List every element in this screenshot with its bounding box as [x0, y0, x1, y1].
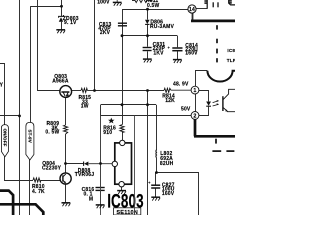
junction L802 output node	[155, 171, 158, 174]
wire: C814 drop	[177, 36, 179, 48]
wire: D808 to IC803 pin	[89, 163, 112, 165]
junction C813/D806 node left	[121, 34, 124, 37]
svg-text:ST-9V: ST-9V	[27, 130, 32, 143]
wire: IC803 bottom pin to ground	[121, 187, 123, 190]
connector circle 1	[191, 86, 199, 94]
svg-text:1KV: 1KV	[153, 51, 164, 57]
resistor R814	[164, 88, 171, 92]
wire: zener top	[61, 0, 63, 16]
svg-text:R811: R811	[146, 0, 158, 4]
label pill ST-9V	[26, 122, 34, 160]
wire: circle1 up and right to arc	[196, 71, 208, 87]
wire: D808 horizontal	[66, 163, 84, 165]
svg-text:2: 2	[193, 113, 196, 119]
ground: C831	[143, 59, 152, 62]
ground: IC803	[117, 191, 126, 194]
wire: ON/OFF to R810	[5, 157, 34, 181]
svg-text:1W: 1W	[81, 103, 89, 109]
svg-text:160V: 160V	[162, 191, 175, 197]
wire: C831 to ground	[147, 51, 149, 59]
ground: zener	[56, 30, 65, 33]
wire: node y=35.7 horizontal	[122, 35, 177, 37]
wire: R809 to node	[65, 134, 67, 164]
wire: LED loop	[199, 91, 209, 102]
svg-text:48. 9V: 48. 9V	[173, 81, 189, 87]
svg-text:0. 5W: 0. 5W	[45, 129, 59, 135]
svg-text:TLP: TLP	[227, 58, 235, 63]
thick power wires	[0, 21, 235, 215]
junction C816 node	[99, 162, 102, 165]
wire: horizontal y=6.3 to zener node	[30, 6, 61, 8]
wire: branch y=104.7	[101, 104, 156, 106]
junction left bus tap	[18, 115, 21, 118]
wire: thick left wire 1	[0, 191, 13, 215]
wire: 50V long horizontal / box top	[101, 115, 191, 117]
wire: long horizontal y=90.5	[94, 90, 164, 92]
wire: C816 to ground	[100, 191, 102, 205]
junction C813/D806 node right	[146, 34, 149, 37]
svg-text:Y: Y	[0, 82, 4, 88]
svg-text:2KV: 2KV	[100, 30, 111, 36]
star mark	[108, 118, 114, 124]
wire: thick bus top right	[191, 20, 235, 23]
svg-text:C2230Y: C2230Y	[42, 166, 62, 172]
ground: C814	[173, 60, 182, 63]
svg-text:82UH: 82UH	[160, 161, 174, 167]
wire: top horizontal y=9.2	[123, 10, 189, 36]
wire: node to Q804	[65, 164, 67, 173]
wire: C827 to ground	[155, 188, 157, 197]
IC803 regulator body	[112, 140, 131, 187]
inductor L802	[155, 150, 158, 158]
capacitor C816	[96, 188, 105, 191]
wire: Q804 emitter to ground	[65, 184, 67, 203]
wire: Q803 collector down to R809	[65, 97, 67, 125]
wire: ON/OFF label entry	[0, 64, 5, 126]
svg-text:IC8: IC8	[227, 48, 235, 53]
svg-text:160V: 160V	[185, 51, 198, 57]
svg-text:14: 14	[189, 7, 195, 13]
svg-text:ON/OFF: ON/OFF	[2, 129, 7, 147]
SE110N boxed label	[114, 208, 141, 216]
transformer core dashed vertical	[212, 25, 234, 151]
svg-text:A966A: A966A	[52, 78, 69, 84]
transformer secondary arc (thick)	[207, 71, 235, 82]
wire: between circle1 and circle2	[195, 94, 197, 111]
svg-text:9. 1V: 9. 1V	[64, 20, 77, 26]
winding right loops	[229, 0, 235, 5]
junction Q804 collector node	[64, 162, 67, 165]
svg-text:IC803: IC803	[107, 190, 144, 212]
capacitor C814 (electrolytic)	[172, 48, 182, 51]
core bars top	[212, 2, 214, 7]
wire: zener bottom	[61, 22, 63, 30]
ground: 100V top	[113, 0, 122, 6]
wire: output to right edge	[156, 173, 199, 216]
wire: R816 to IC803 top pin	[122, 133, 124, 141]
resistor R818 (cut at top)	[132, 0, 152, 3]
optocoupler LED	[206, 102, 211, 107]
transistor Q804	[60, 173, 71, 184]
svg-text:TVR06J: TVR06J	[75, 172, 94, 178]
winding left loops	[206, 0, 208, 9]
wire: circle14 lead down	[192, 13, 194, 21]
wire: R810 right to Q804 base	[41, 180, 60, 182]
wire: thick left wire 2	[0, 204, 43, 215]
connector circle 14	[188, 5, 196, 13]
resistor R809 (vertical)	[64, 125, 68, 134]
core dashes bottom right	[215, 139, 217, 144]
wire: C827 drop	[155, 172, 157, 185]
wire: x=100.7 down to C816	[100, 105, 102, 188]
svg-text:100V: 100V	[97, 0, 110, 6]
resistor R815	[81, 88, 87, 92]
junction at ZD803 top	[60, 5, 63, 8]
wire: x=122 C813 section handled above; down segment	[122, 36, 124, 125]
svg-text:1: 1	[193, 88, 196, 94]
junction branch corner	[146, 103, 149, 106]
wire: C814 to ground	[177, 51, 179, 59]
svg-text:50V: 50V	[181, 106, 191, 112]
wire: Q803 right to R815	[72, 90, 81, 92]
resistor R810	[33, 178, 41, 182]
junction R816 top	[121, 103, 124, 106]
wire: thick bus bottom right	[194, 135, 235, 138]
zener ZD803	[59, 15, 64, 22]
wire: L802 below coil	[156, 158, 158, 172]
junction at D806 top	[146, 8, 149, 11]
wire: branch x=147.3 down to bottom	[147, 91, 149, 216]
ground: C827	[151, 197, 160, 200]
wire: x=37.3 vertical + Q803 base	[38, 0, 61, 91]
optocoupler arrows	[213, 100, 219, 106]
wire: circle14 to winding	[196, 8, 207, 10]
svg-text:RU-3AMV: RU-3AMV	[150, 24, 175, 30]
wire: D806 bottom to node	[147, 25, 149, 36]
transistor Q803	[60, 86, 72, 98]
wire: thick below circle2	[194, 119, 197, 136]
wire: left branch y=115.9	[0, 115, 19, 117]
wire: R814 to circle 1	[171, 89, 191, 91]
optocoupler phototransistor	[223, 89, 235, 111]
wire: L802 chain from jog	[156, 105, 158, 151]
resistor R816 (vertical, in box)	[120, 125, 124, 133]
wire: C831 drop	[147, 36, 149, 47]
ground: Q804 emitter	[62, 203, 71, 206]
svg-text:4. 7K: 4. 7K	[32, 189, 45, 195]
capacitor C813	[118, 23, 127, 26]
wire: ST-9V vertical lower	[29, 159, 31, 215]
wire: x=94.4 vertical from top	[94, 0, 96, 91]
junction R815 output	[93, 89, 96, 92]
svg-text:M: M	[89, 197, 93, 203]
wire: left long vertical	[19, 0, 21, 215]
wire: ST-9V vertical upper	[30, 6, 32, 124]
svg-text:910: 910	[103, 130, 112, 136]
connector circle 2	[191, 112, 199, 120]
diode D806	[145, 20, 150, 25]
capacitor C831	[143, 48, 152, 51]
diode D808	[84, 162, 89, 166]
svg-text:12K: 12K	[165, 98, 175, 104]
ground: C816	[96, 205, 105, 208]
wire: R815 to node	[87, 90, 94, 92]
transformer top windings	[204, 0, 235, 9]
junction feedback tap	[146, 89, 149, 92]
label pill ON/OFF	[1, 125, 8, 157]
capacitor C827 (electrolytic)	[151, 185, 160, 188]
feedback box	[101, 116, 135, 216]
wire: D806 top	[147, 9, 149, 19]
